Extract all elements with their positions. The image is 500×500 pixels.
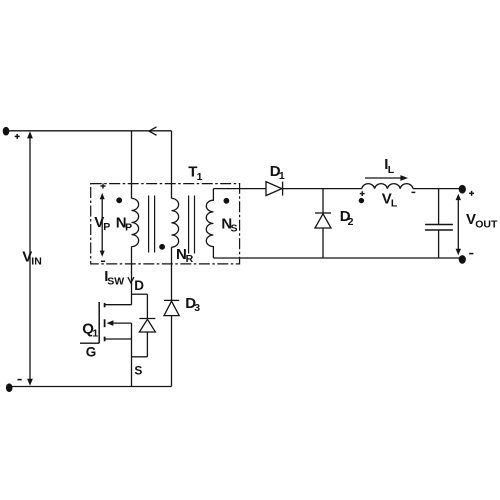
V_IN measurement arrow	[27, 131, 33, 385]
svg-text:L: L	[388, 164, 395, 176]
wire inductor to output + terminal	[413, 188, 462, 190]
inductor L	[362, 184, 413, 189]
label + of V_L	[360, 191, 365, 196]
polarity dot N_R	[159, 244, 165, 250]
svg-text:S: S	[231, 223, 238, 235]
output terminal -	[459, 255, 466, 264]
diode D2	[315, 213, 331, 258]
polarity dot N_P	[116, 197, 122, 203]
svg-text:3: 3	[194, 302, 200, 314]
core lines between N_R and N_S	[189, 196, 195, 254]
svg-text:1: 1	[197, 171, 203, 183]
label - at output	[469, 253, 473, 255]
svg-text:OUT: OUT	[475, 218, 498, 230]
top rail wire	[6, 130, 172, 132]
label I_SW	[104, 268, 124, 288]
label D1	[270, 163, 285, 182]
label - of V_P	[101, 260, 105, 262]
label + of V_P	[100, 183, 105, 188]
label V_IN	[22, 249, 42, 268]
bottom rail wire (primary side)	[9, 386, 172, 388]
svg-text:R: R	[186, 253, 194, 265]
wire D1 to inductor	[283, 188, 362, 190]
svg-text:1: 1	[92, 327, 98, 339]
svg-text:2: 2	[348, 216, 354, 228]
label V_OUT	[466, 211, 498, 230]
label Q1	[82, 321, 98, 340]
diode D3	[164, 300, 179, 315]
wire N_S top to D1	[213, 188, 266, 190]
V_OUT measurement arrow	[456, 194, 461, 256]
label V_P	[94, 214, 110, 233]
secondary winding N_S	[206, 189, 213, 258]
I_L current arrow	[365, 175, 408, 181]
svg-text:G: G	[86, 345, 97, 360]
svg-text:P: P	[125, 221, 132, 233]
svg-text:S: S	[134, 363, 142, 377]
label V_L	[382, 191, 398, 210]
label + at output	[469, 191, 474, 196]
label I_L	[384, 156, 395, 176]
svg-text:IN: IN	[31, 256, 42, 268]
wire N_P top	[131, 131, 133, 199]
reset winding N_R	[172, 198, 179, 247]
primary winding N_P	[132, 198, 139, 246]
V_P measurement arrow	[100, 193, 105, 257]
core lines between N_P and N_R	[149, 196, 155, 253]
label + at input top	[15, 134, 20, 139]
label D3	[185, 295, 200, 314]
input terminal - (bottom-left)	[6, 383, 13, 392]
label T1	[188, 164, 202, 184]
output bottom rail (secondary side)	[213, 257, 462, 259]
label N_P	[116, 215, 132, 234]
wire D3 to bottom rail	[171, 316, 173, 387]
diode D1	[266, 182, 283, 196]
wire N_R bottom to D3	[171, 247, 173, 300]
svg-text:SW: SW	[107, 276, 124, 288]
wire N_R top	[171, 131, 173, 199]
svg-text:1: 1	[279, 170, 285, 182]
output terminal +	[459, 185, 466, 194]
label - of V_L	[412, 191, 416, 193]
body diode of Q1	[132, 294, 156, 357]
output capacitor	[425, 189, 453, 258]
wire N_P bottom to Q1 drain	[131, 247, 133, 305]
label N_S	[221, 215, 237, 234]
label N_R	[176, 246, 194, 265]
label D2	[340, 208, 354, 228]
I_SW arrow on drain wire	[128, 277, 134, 283]
wire D2 branch	[322, 189, 324, 213]
transformer T1 boundary box	[91, 184, 240, 264]
MOSFET Q1	[80, 302, 132, 387]
junction dot at inductor input	[359, 198, 364, 203]
input terminal + (top-left)	[3, 127, 10, 136]
reset current arrow on top rail	[149, 127, 157, 135]
svg-text:P: P	[103, 221, 110, 233]
polarity dot N_S	[224, 198, 230, 204]
label - at input bottom	[18, 379, 22, 381]
svg-text:L: L	[391, 198, 398, 210]
svg-text:D: D	[134, 278, 144, 293]
